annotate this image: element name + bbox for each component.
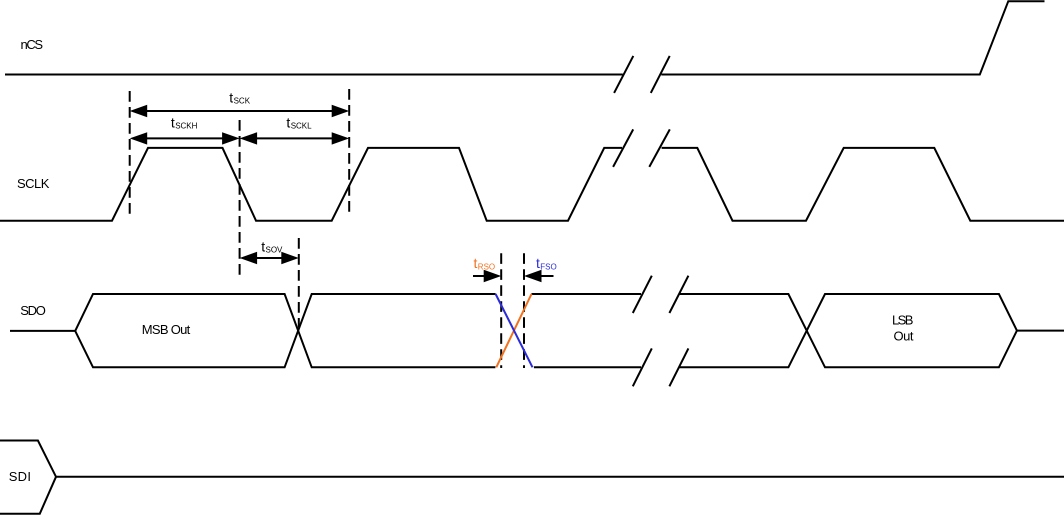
- svg-text:LSB: LSB: [892, 313, 913, 328]
- svg-text:FSO: FSO: [540, 262, 556, 271]
- svg-text:nCS: nCS: [21, 37, 44, 52]
- svg-text:SCKL: SCKL: [291, 122, 312, 131]
- svg-text:Out: Out: [894, 329, 914, 344]
- svg-text:SCLK: SCLK: [17, 176, 50, 191]
- svg-text:MSB Out: MSB Out: [142, 322, 191, 337]
- svg-text:SDI: SDI: [9, 469, 31, 484]
- svg-text:SOV: SOV: [266, 245, 284, 254]
- svg-text:SCKH: SCKH: [175, 122, 197, 131]
- svg-text:SCK: SCK: [234, 97, 251, 106]
- svg-text:SDO: SDO: [20, 303, 46, 318]
- svg-text:RSO: RSO: [478, 262, 495, 271]
